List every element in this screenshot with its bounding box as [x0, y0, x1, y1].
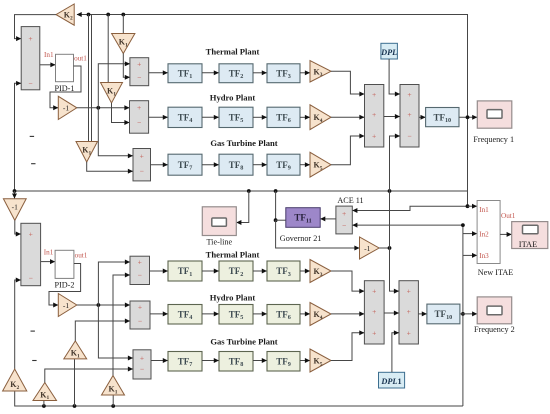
- svg-text:ITAE: ITAE: [519, 240, 537, 249]
- svg-text:+: +: [372, 131, 376, 140]
- svg-text:+: +: [140, 151, 144, 160]
- svg-text:+: +: [372, 287, 376, 296]
- svg-text:Governor 21: Governor 21: [280, 234, 322, 243]
- svg-text:-1: -1: [63, 104, 69, 113]
- svg-text:+: +: [372, 90, 376, 99]
- svg-text:ACE 11: ACE 11: [337, 196, 363, 205]
- svg-text:PID-2: PID-2: [54, 281, 74, 290]
- svg-text:−: −: [138, 317, 142, 326]
- svg-text:New ITAE: New ITAE: [478, 268, 514, 277]
- svg-text:Frequency 1: Frequency 1: [473, 135, 514, 144]
- svg-text:In1: In1: [479, 206, 489, 214]
- svg-text:+: +: [138, 303, 142, 312]
- svg-text:+: +: [407, 328, 411, 337]
- svg-text:Hydro Plant: Hydro Plant: [210, 93, 256, 103]
- svg-text:-1: -1: [63, 301, 69, 310]
- svg-text:In2: In2: [479, 230, 489, 238]
- svg-text:In1: In1: [44, 51, 54, 59]
- svg-text:−: −: [137, 118, 141, 127]
- svg-text:out1: out1: [75, 252, 88, 260]
- svg-text:+: +: [140, 354, 144, 363]
- svg-text:Thermal Plant: Thermal Plant: [206, 47, 260, 57]
- svg-text:+: +: [407, 307, 411, 316]
- svg-text:−: −: [140, 167, 144, 176]
- svg-text:−: −: [140, 365, 144, 374]
- svg-text:+: +: [407, 90, 411, 99]
- svg-text:In3: In3: [479, 252, 489, 260]
- svg-text:-1: -1: [364, 244, 370, 253]
- svg-text:-1: -1: [12, 202, 18, 211]
- svg-text:+: +: [29, 230, 33, 239]
- svg-text:DPL: DPL: [380, 48, 397, 57]
- svg-text:−: −: [407, 131, 411, 140]
- svg-text:Thermal Plant: Thermal Plant: [206, 249, 260, 259]
- svg-text:+: +: [342, 209, 346, 218]
- svg-text:+: +: [28, 34, 32, 43]
- svg-text:+: +: [138, 258, 142, 267]
- svg-text:+: +: [137, 103, 141, 112]
- svg-text:+: +: [372, 328, 376, 337]
- svg-text:In1: In1: [44, 249, 54, 257]
- svg-text:Gas Turbine Plant: Gas Turbine Plant: [210, 138, 277, 148]
- svg-text:−: −: [138, 271, 142, 280]
- svg-text:−: −: [28, 79, 32, 88]
- svg-text:+: +: [137, 59, 141, 68]
- svg-text:+: +: [407, 287, 411, 296]
- svg-text:−: −: [137, 73, 141, 82]
- svg-text:+: +: [407, 110, 411, 119]
- svg-text:out1: out1: [74, 54, 87, 62]
- svg-text:+: +: [372, 307, 376, 316]
- svg-text:Gas Turbine Plant: Gas Turbine Plant: [210, 337, 277, 347]
- svg-text:−: −: [342, 221, 346, 230]
- svg-text:Out1: Out1: [501, 212, 516, 220]
- svg-text:Frequency 2: Frequency 2: [474, 325, 515, 334]
- svg-text:Tie-line: Tie-line: [206, 237, 232, 246]
- svg-text:−: −: [29, 274, 33, 283]
- svg-text:DPL1: DPL1: [380, 377, 401, 386]
- svg-text:Hydro Plant: Hydro Plant: [210, 293, 256, 303]
- svg-text:+: +: [372, 110, 376, 119]
